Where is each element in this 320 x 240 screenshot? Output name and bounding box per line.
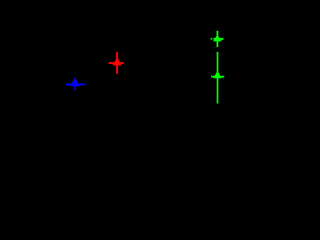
green lower errorbar point: long vertical error bar bbox=[217, 52, 219, 104]
green lower errorbar point: horizontal error bar bbox=[211, 76, 224, 78]
red errorbar point: triangle marker bbox=[112, 57, 122, 65]
green upper errorbar point: triangle marker bbox=[213, 35, 222, 42]
blue errorbar point: lower vertical error bar bbox=[74, 86, 76, 91]
green upper errorbar point: vertical error bar bbox=[216, 31, 218, 48]
red errorbar point: horizontal error bar bbox=[109, 62, 124, 64]
green upper errorbar point: horizontal error bar bbox=[214, 38, 224, 40]
red errorbar point: vertical error bar bbox=[116, 52, 118, 74]
blue errorbar point: triangle marker bbox=[70, 77, 80, 86]
green lower errorbar point: right cap dot bbox=[222, 77, 225, 80]
green upper errorbar point: left cap dot bbox=[211, 38, 213, 40]
green lower errorbar point: triangle marker bbox=[213, 71, 222, 79]
blue errorbar point: horizontal error bar bbox=[66, 83, 85, 85]
